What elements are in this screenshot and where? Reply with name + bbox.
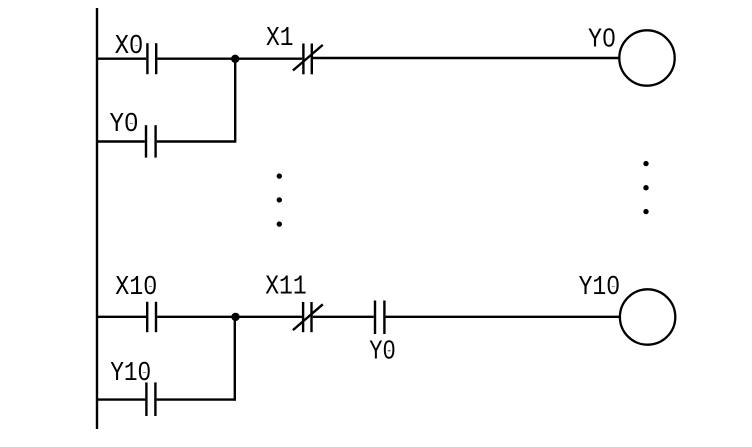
junction node rung2 [231, 313, 239, 321]
coil Y10 [620, 289, 675, 344]
wire branch1: Y0 to branch vertical [157, 140, 235, 142]
svg-text:Y0: Y0 [369, 337, 396, 367]
wire branch2: Y10 to branch vertical [157, 398, 235, 400]
coil Y0 [619, 30, 674, 85]
svg-text:X1: X1 [266, 24, 294, 54]
contact X11 (NC) [293, 302, 323, 332]
contact Y0 (NO, rung2) [375, 301, 384, 335]
wire rung2: X10 to X11 [157, 316, 302, 318]
wire rung2: rail to contact X10 [97, 316, 146, 318]
wire rung1: X0 to X1 [157, 58, 302, 60]
vertical ellipsis dots (left) [277, 173, 282, 226]
svg-text:X10: X10 [115, 273, 157, 303]
contact X0 (NO) [147, 43, 156, 74]
wire branch1: rail to contact Y0 [97, 140, 145, 142]
junction node rung1 [231, 55, 239, 63]
wire rung1: X1 to coil Y0 [313, 57, 619, 59]
wire branch2 vertical riser [234, 317, 236, 401]
wire branch1 vertical riser [234, 59, 236, 143]
svg-text:X11: X11 [265, 273, 307, 303]
contact X10 (NO) [147, 302, 156, 332]
contact X1 (NC) [293, 44, 323, 75]
svg-text:Y0: Y0 [588, 26, 616, 56]
contact Y10 (NO) [146, 382, 155, 416]
contact Y0 (NO) [146, 125, 156, 157]
wire rung2: X11 to contact Y0 [313, 316, 374, 318]
left power rail [96, 8, 98, 429]
wire branch2: rail to contact Y10 [97, 398, 145, 400]
wire rung2: Y0 contact to coil Y10 [386, 316, 620, 318]
zero-glyph dot covers (target zeros are plain ovals) [128, 34, 616, 373]
svg-text:Y0: Y0 [110, 110, 139, 140]
svg-text:X0: X0 [115, 32, 144, 62]
vertical ellipsis dots (right) [643, 161, 648, 214]
svg-text:Y10: Y10 [110, 359, 151, 389]
wire rung1: rail to contact X0 [97, 58, 146, 60]
svg-text:Y10: Y10 [579, 273, 621, 303]
